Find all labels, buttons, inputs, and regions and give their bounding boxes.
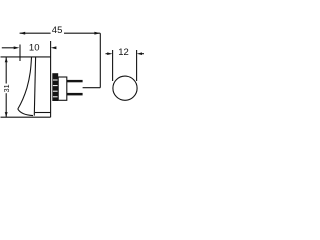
rocker right edge xyxy=(34,57,35,116)
10-dim right arrow (points left) xyxy=(51,46,57,49)
rocker front curve xyxy=(18,57,32,109)
bushing thread stripe 4 xyxy=(53,96,58,98)
45-dim line left segment xyxy=(20,32,51,34)
10-dim left tail xyxy=(2,47,14,49)
bushing thread stripe 2 xyxy=(53,85,58,87)
12-dim right extension xyxy=(136,50,138,81)
12-dim left extension xyxy=(112,50,114,81)
45-dim jog horizontal to pin tips xyxy=(83,87,101,89)
bushing with thread stripes xyxy=(52,73,58,101)
12-dim left tail xyxy=(106,53,108,55)
45-dim line right segment xyxy=(64,32,100,34)
45-dim left arrow xyxy=(19,32,25,35)
pin 2 xyxy=(67,93,83,96)
rocker bottom edge xyxy=(18,109,33,116)
10-dim left arrow (points right) xyxy=(14,46,20,49)
svg-text:12: 12 xyxy=(118,47,129,58)
31-dim top arrow (points up) xyxy=(5,57,8,62)
45-dim right arrow xyxy=(94,32,100,35)
10-dim right extension line (body back) xyxy=(50,41,52,117)
12-dim left arrow (points right) xyxy=(107,52,112,55)
31-dim bottom tick xyxy=(1,116,51,118)
bushing thread stripe 3 xyxy=(53,90,58,92)
svg-text:45: 45 xyxy=(52,25,63,36)
31-dim vertical line upper xyxy=(5,57,7,83)
45-dim right extension jog vertical xyxy=(99,33,101,87)
31-dim bottom arrow (points down) xyxy=(5,112,8,117)
12-dim right tail xyxy=(142,53,145,55)
body bottom edge xyxy=(35,112,51,114)
circle front view xyxy=(113,76,137,100)
pin 1 xyxy=(67,80,83,82)
31-dim vertical line lower xyxy=(5,93,7,117)
housing outline xyxy=(58,77,67,100)
12-dim right arrow (points left) xyxy=(137,52,142,55)
svg-text:31: 31 xyxy=(2,84,11,92)
top reference line / 31-dim top tick + body top edge xyxy=(1,56,51,58)
svg-text:10: 10 xyxy=(29,43,40,54)
10-dim left extension tick xyxy=(19,45,21,62)
bushing thread stripe 1 xyxy=(53,79,58,81)
